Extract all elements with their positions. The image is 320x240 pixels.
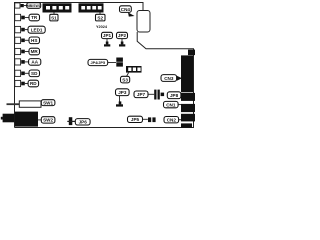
svg-text:JP3: JP3: [118, 90, 127, 95]
svg-text:CN1: CN1: [166, 102, 176, 107]
svg-text:MR: MR: [31, 49, 39, 54]
svg-text:MB/SW1: MB/SW1: [27, 4, 41, 8]
svg-text:SW1: SW1: [43, 100, 53, 105]
svg-text:JP2: JP2: [118, 33, 127, 38]
svg-text:JP1: JP1: [103, 33, 112, 38]
svg-text:RD: RD: [30, 81, 37, 86]
svg-text:AA: AA: [31, 60, 38, 65]
svg-text:Y2024: Y2024: [96, 25, 108, 29]
svg-text:SW2: SW2: [43, 118, 53, 123]
svg-text:S1: S1: [51, 15, 57, 20]
svg-text:SD: SD: [31, 71, 38, 76]
svg-text:S2: S2: [97, 15, 103, 20]
svg-text:CN4: CN4: [121, 7, 131, 12]
svg-text:TR: TR: [31, 15, 38, 20]
svg-text:S3: S3: [122, 77, 128, 82]
svg-text:JP7: JP7: [137, 92, 146, 97]
svg-text:JP4/JP5: JP4/JP5: [91, 61, 106, 65]
svg-text:LED1: LED1: [31, 27, 43, 32]
svg-text:JP5: JP5: [131, 117, 140, 122]
svg-text:CN3: CN3: [164, 76, 174, 81]
svg-text:JP6: JP6: [79, 120, 88, 125]
svg-text:CN2: CN2: [167, 118, 177, 123]
svg-text:HS: HS: [31, 38, 37, 43]
svg-text:JP8: JP8: [170, 93, 179, 98]
